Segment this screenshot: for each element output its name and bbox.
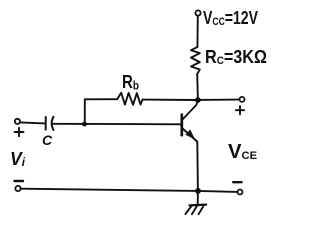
wire emitter down to ground node — [196, 142, 199, 191]
transistor Q1 collector — [183, 101, 198, 120]
plus sign input — [15, 128, 24, 136]
transistor Q1 base bar — [180, 115, 183, 136]
node collector junction — [195, 97, 201, 103]
svg-text:Vi: Vi — [10, 149, 26, 169]
terminal Vcc — [195, 10, 200, 15]
wire collector node to output terminal — [198, 99, 240, 101]
transistor Q1 emitter — [183, 129, 198, 142]
svg-text:RC=3KΩ: RC=3KΩ — [205, 47, 267, 67]
terminal output minus — [238, 190, 243, 195]
capacitor C — [46, 117, 54, 130]
transistor Q1 emitter arrow — [185, 129, 194, 139]
ground stub — [197, 192, 199, 204]
wire Vcc to Rc — [196, 16, 198, 47]
wire Rb right to collector node — [143, 99, 196, 101]
minus sign input — [15, 180, 24, 182]
wire Rc to collector node — [196, 74, 199, 100]
resistor Rb — [117, 93, 142, 105]
wire bottom rail — [21, 189, 238, 192]
terminal input minus — [15, 186, 20, 191]
plus sign output — [236, 106, 244, 114]
wire base node up and right to Rb — [85, 99, 117, 124]
node emitter ground junction — [195, 188, 201, 194]
svg-text:VCE: VCE — [228, 141, 257, 163]
wire capacitor to base — [53, 123, 181, 126]
svg-text:Rb: Rb — [122, 72, 139, 93]
node base junction — [82, 122, 87, 127]
svg-text:VCC=12V: VCC=12V — [203, 8, 258, 28]
ground hatch 3 — [199, 207, 204, 215]
svg-text:C: C — [42, 132, 53, 148]
ground bar — [190, 204, 207, 207]
terminal output plus — [240, 97, 245, 102]
minus sign output — [233, 181, 241, 183]
terminal input plus — [15, 119, 20, 124]
resistor Rc — [191, 47, 200, 74]
wire input terminal to capacitor — [20, 122, 45, 123]
ground hatch 1 — [185, 206, 191, 214]
ground hatch 2 — [192, 206, 197, 214]
